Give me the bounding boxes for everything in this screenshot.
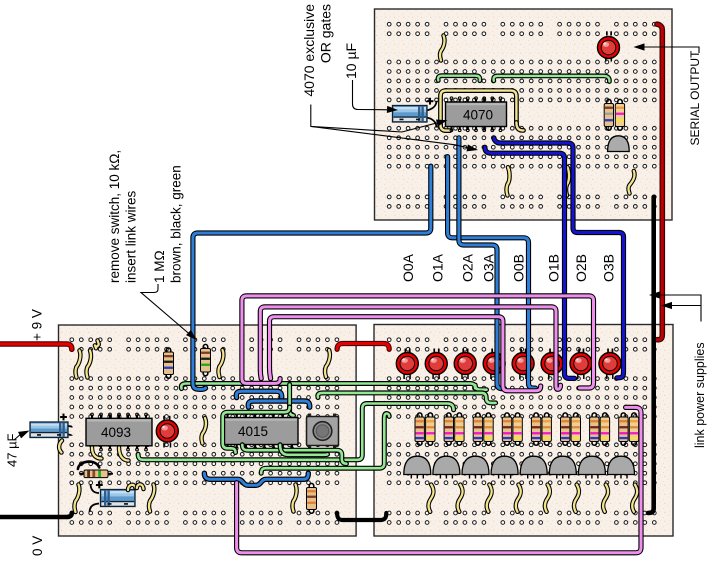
capacitor C3 polarity + [60, 416, 67, 418]
svg-text:O3A: O3A [481, 253, 497, 282]
IC U3 4015 [226, 414, 228, 418]
resistor pair RP2a [444, 417, 453, 442]
wire 0V link B1 to B3 (black) [648, 197, 654, 513]
resistor pair RP7a [590, 417, 599, 442]
wire P4 long violet loop [237, 407, 641, 552]
svg-text:10 µF: 10 µF [343, 43, 359, 79]
green wire G2 [318, 393, 496, 403]
resistor R4 horizontal [80, 473, 113, 475]
yellow link bottom right B1 [628, 171, 634, 194]
resistor pair RP6a [561, 417, 570, 442]
LED D7 [512, 353, 534, 375]
LED D5 [454, 353, 476, 375]
blue jumper arch 2 on B2 [248, 401, 309, 407]
yellow link rail1-rail2 [95, 341, 99, 349]
resistor R1 10k [164, 352, 174, 375]
transistor Q4 [499, 475, 511, 479]
pointer line to R2 [141, 284, 190, 335]
svg-text:47 µF: 47 µF [5, 433, 20, 467]
yellow link right of C2 [149, 485, 154, 512]
svg-text:O1A: O1A [430, 253, 446, 282]
svg-text:brown, black, green: brown, black, green [169, 165, 184, 283]
0V black feed wire [0, 513, 72, 517]
black jumper 0V between B2 and B3 [337, 513, 386, 520]
wire O1B (dark blue) [485, 147, 575, 378]
resistor pair RP1b [426, 417, 435, 442]
svg-text:4070 exclusive: 4070 exclusive [301, 4, 317, 97]
svg-text:link power supplies: link power supplies [693, 342, 707, 448]
capacitor C3 47uF body [30, 422, 68, 438]
svg-text:1 MΩ: 1 MΩ [152, 250, 167, 283]
transistor Q2 [440, 475, 452, 479]
resistor pair RP6b [571, 417, 580, 442]
svg-text:OR gates: OR gates [318, 4, 334, 63]
svg-text:0 V: 0 V [30, 536, 45, 556]
pointer line serial output [636, 47, 699, 53]
svg-text:remove switch, 10 kΩ,: remove switch, 10 kΩ, [107, 150, 122, 283]
wire serial output (dark red) [657, 24, 662, 340]
svg-text:O0B: O0B [511, 254, 527, 282]
transistor Q9 on B1 [608, 136, 630, 152]
resistor pair RP2b [455, 417, 464, 442]
LED D2 [156, 420, 178, 442]
yellow link beside R2 [218, 350, 223, 377]
green wire Gm4 (to B3 pin row) [261, 414, 389, 474]
green wire GA (long top run to B3) [181, 384, 486, 390]
yellow link bottom far left [74, 485, 79, 513]
green wire Gm3 [280, 445, 327, 455]
svg-text:4015: 4015 [238, 424, 268, 439]
+9V red feed wire [0, 344, 72, 349]
blue S link on B2 bottom [204, 473, 308, 485]
holes breadboard B2 [70, 338, 339, 525]
wire P1 (violet, B2 to B3) [242, 296, 594, 388]
resistor R6 on B1 [615, 104, 624, 127]
LED D8 [541, 353, 563, 375]
resistor pair RP4b [513, 417, 522, 442]
wire O3B (dark blue) [494, 138, 624, 378]
yellow link B3-2 [458, 485, 463, 512]
green wire G-side along U3 [223, 407, 290, 453]
resistor pair RP8b [629, 417, 638, 442]
yellow link below IC U2 [506, 167, 509, 195]
resistor pair RP8a [619, 417, 628, 442]
pointer line to C1 [353, 80, 390, 110]
wire P3 (violet) [270, 317, 541, 391]
resistor pair RP5b [542, 417, 551, 442]
yellow hook at left edge of B2 [59, 441, 62, 453]
push switch S1 [308, 414, 311, 418]
yellow link B3-6 [574, 485, 579, 512]
resistor pair RP3b [484, 417, 493, 442]
svg-text:O0A: O0A [400, 253, 416, 282]
capacitor C3 47uF leads [65, 426, 72, 428]
breadboard B2 (bottom left) [59, 325, 357, 536]
LED D10 [599, 353, 621, 375]
LED D3 [396, 353, 418, 375]
yellow link B3-7 [603, 485, 608, 512]
capacitor C2 polarity + [96, 484, 103, 486]
green wire Gm1 (4093 to B3) [138, 404, 454, 460]
yellow link around IC U2 (pi-shaped) [441, 91, 517, 126]
svg-text:SERIAL OUTPUT: SERIAL OUTPUT [688, 50, 702, 146]
yellow hooks pair above C2 [128, 485, 136, 490]
LED D1 serial output [598, 37, 620, 59]
holes breadboard B1 [387, 22, 656, 208]
pointer line to U2 [311, 105, 439, 133]
yellow link left of R3 [292, 485, 296, 512]
yellow link B3-5 [545, 485, 550, 512]
capacitor C1 polarity + [427, 100, 434, 102]
yellow link B3-8 [632, 485, 637, 512]
resistor pair RP7b [600, 417, 609, 442]
svg-text:O1B: O1B [546, 254, 562, 282]
transistor Q7 [586, 475, 598, 479]
red jumper +9V between B2 and B3 [337, 344, 389, 350]
green wire GA riser from U3 [290, 385, 294, 416]
wire O2A (blue) [459, 138, 505, 389]
black curved link near R4 [78, 462, 99, 469]
capacitor C1 10uF leads [426, 101, 437, 111]
capacitor C1 10uF body [393, 106, 428, 123]
resistor pair RP1a [415, 417, 424, 442]
IC U2 4070 [450, 99, 452, 103]
resistor pair RP3a [473, 417, 482, 442]
yellow link bottom middle B1 [566, 167, 569, 195]
transistor Q3 [470, 475, 482, 479]
LED D4 [425, 353, 447, 375]
transistor Q1 [411, 475, 423, 479]
yellow link B3-4 [516, 485, 521, 512]
pointer line 2 [311, 126, 469, 148]
svg-text:4093: 4093 [101, 425, 131, 440]
capacitor C2 leads [91, 484, 99, 493]
yellow rail links left [75, 351, 80, 378]
breadboard B1 (top) [375, 9, 673, 220]
transistor Q6 [557, 475, 569, 479]
IC U1 4093 [91, 415, 93, 419]
svg-text:O2B: O2B [573, 254, 589, 282]
svg-text:O3B: O3B [601, 254, 617, 282]
svg-text:+ 9 V: + 9 V [30, 309, 45, 341]
green link G-t1 on B1 [438, 76, 480, 81]
capacitor C2 body [101, 490, 136, 507]
yellow link right end of B2 [325, 350, 330, 377]
green link G-t2 on B1 [494, 76, 610, 82]
svg-text:insert link wires: insert link wires [124, 190, 139, 283]
yellow hooks under U1 [92, 448, 102, 459]
wire P2 (violet) [260, 307, 560, 389]
yellow link B3-3 [487, 485, 492, 512]
green wire Gm2 [242, 445, 346, 464]
yellow link top left of B1 [440, 36, 445, 61]
pointer line to C3 [14, 433, 22, 440]
pointer bracket link power supplies [652, 295, 701, 322]
resistor pair RP5a [531, 417, 540, 442]
transistor Q8 [615, 475, 627, 479]
yellow link B3-1 [428, 485, 433, 512]
resistor R3 10k vertical [307, 488, 317, 510]
svg-text:4070: 4070 [463, 107, 493, 122]
LED D6 [483, 353, 505, 375]
resistor R5 on B1 [604, 104, 613, 127]
blue jumper arch 1 on B2 [236, 391, 281, 397]
transistor Q5 [528, 475, 540, 479]
holes breadboard B3 [387, 338, 656, 525]
resistor R2 1M [201, 349, 211, 373]
breadboard B3 (bottom right) [374, 325, 673, 537]
wire O1A (blue) [448, 157, 536, 389]
wire O0A (blue, B1 to B2) [193, 166, 431, 389]
LED D9 [570, 353, 592, 375]
svg-text:O2A: O2A [460, 253, 476, 282]
yellow link in channel left of U3 [201, 418, 206, 444]
resistor pair RP4a [502, 417, 511, 442]
